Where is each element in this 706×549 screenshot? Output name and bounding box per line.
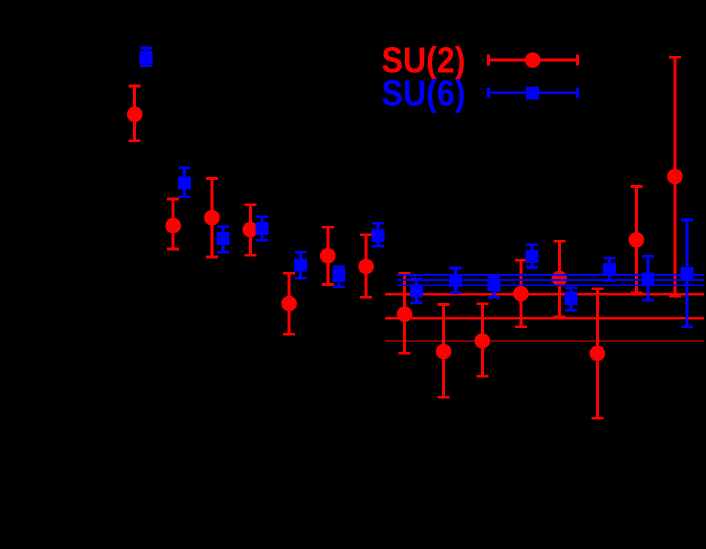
red fit band line 2 (medium) (385, 317, 704, 320)
red point R5 error bar and circle marker (281, 272, 297, 336)
red point R15 error bar and circle marker (667, 56, 683, 298)
red point R3 error bar and circle marker (204, 177, 220, 258)
blue point B7 error bar and square marker (371, 222, 384, 248)
blue point B8 error bar and square marker (410, 278, 423, 305)
red fit band line 1 (thick) (385, 293, 704, 296)
red data series SU(2) (127, 56, 683, 420)
blue point B12 error bar and square marker (565, 286, 578, 311)
blue point B3 error bar and square marker (217, 225, 230, 253)
red point R8 error bar and circle marker (397, 272, 413, 355)
blue point B4 error bar and square marker (256, 216, 269, 242)
blue point B10 error bar and square marker (488, 275, 501, 298)
red point R10 error bar and circle marker (475, 302, 491, 377)
blue point B5 error bar and square marker (294, 251, 307, 280)
red point R11 error bar and circle marker (513, 259, 529, 328)
blue fit band line 1 (397, 274, 704, 276)
blue data series SU(6) (140, 47, 385, 288)
legend SU(2) error-bar sample with circle (487, 52, 579, 68)
blue point B2 error bar and square marker (178, 167, 191, 199)
red point R6 error bar and circle marker (320, 226, 336, 286)
red point R4 error bar and circle marker (243, 203, 259, 256)
blue point B1 error bar and square marker (140, 47, 153, 67)
svg-text:SU(6): SU(6) (382, 72, 466, 113)
red point R12 error bar and circle marker (552, 240, 568, 318)
blue fit band line 2 (397, 279, 704, 281)
red point R14 error bar and circle marker (629, 185, 645, 294)
red point R9 error bar and circle marker (436, 303, 452, 398)
legend SU(6) error-bar sample with square (487, 86, 579, 99)
red fit band line 3 (thin) (385, 340, 704, 341)
blue point B15 error bar and square marker (681, 219, 694, 328)
blue point B6 error bar and square marker (333, 266, 346, 288)
blue point B14 error bar and square marker (642, 255, 655, 302)
red point R2 error bar and circle marker (165, 198, 181, 251)
blue point B11 error bar and square marker (526, 243, 539, 269)
blue point B9 error bar and square marker (449, 267, 462, 294)
blue fit band line 3 (397, 284, 704, 286)
red point R13 error bar and circle marker (590, 288, 606, 420)
red point R1 error bar and circle marker (127, 85, 143, 142)
red point R7 error bar and circle marker (358, 233, 374, 298)
blue point B13 error bar and square marker (603, 257, 616, 282)
